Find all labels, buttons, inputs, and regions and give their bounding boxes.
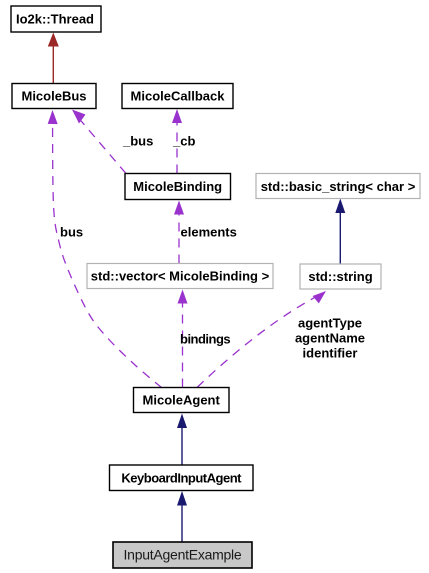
label _cb [172, 134, 195, 149]
edge MicoleBus->Io2k::Thread private inheritance (dark red) [48, 33, 59, 84]
svg-text:KeyboardInputAgent: KeyboardInputAgent [121, 471, 242, 486]
node std::basic_string< char > [256, 174, 420, 199]
svg-text:bus: bus [60, 225, 83, 240]
edge InputAgentExample->KeyboardInputAgent inheritance (midnightblue) [177, 491, 187, 542]
svg-text:Io2k::Thread: Io2k::Thread [16, 12, 94, 27]
node MicoleBinding [125, 174, 231, 200]
label _bus [122, 134, 153, 149]
svg-text:agentType: agentType [298, 316, 362, 331]
node MicoleBus [12, 84, 96, 109]
svg-text:elements: elements [181, 225, 237, 240]
label elements [181, 225, 237, 240]
edge std::vector->MicoleBinding usage elements (dashed darkorchid) [174, 201, 184, 264]
node std::vector< MicoleBinding > [87, 264, 273, 289]
svg-text:MicoleAgent: MicoleAgent [143, 393, 221, 408]
edge MicoleAgent->std::string usage agentType/agentName/identifier (dashed darkorchid) [197, 291, 326, 388]
svg-text:bindings: bindings [180, 332, 230, 347]
svg-text:identifier: identifier [303, 346, 358, 361]
svg-text:std::vector< MicoleBinding >: std::vector< MicoleBinding > [91, 269, 270, 284]
svg-text:MicoleBinding: MicoleBinding [133, 179, 222, 194]
svg-text:std::string: std::string [308, 269, 372, 284]
svg-text:MicoleBus: MicoleBus [21, 89, 86, 104]
node Io2k::Thread [11, 6, 101, 32]
svg-text:_cb: _cb [172, 134, 195, 149]
edge MicoleAgent->MicoleBus usage bus (curved dashed darkorchid) [48, 110, 162, 388]
svg-text:_bus: _bus [122, 134, 153, 149]
node MicoleCallback [122, 84, 233, 109]
label bindings [180, 332, 230, 347]
edge std::string->std::basic_string inheritance (midnightblue) [335, 199, 345, 265]
node MicoleAgent [134, 388, 230, 413]
label bus [60, 225, 83, 240]
edge MicoleAgent->std::vector usage bindings (dashed darkorchid) [178, 290, 188, 388]
node KeyboardInputAgent [110, 465, 254, 491]
edge MicoleBinding->MicoleBus usage _bus (dashed darkorchid) [72, 110, 126, 174]
edge MicoleBinding->MicoleCallback usage _cb (dashed darkorchid) [172, 109, 182, 174]
svg-text:std::basic_string< char >: std::basic_string< char > [261, 179, 416, 194]
node InputAgentExample (current, grey filled) [113, 542, 252, 568]
node std::string [300, 264, 381, 289]
svg-text:agentName: agentName [295, 331, 365, 346]
edge KeyboardInputAgent->MicoleAgent inheritance (midnightblue) [177, 414, 187, 466]
label agentType agentName identifier [295, 316, 365, 361]
svg-text:InputAgentExample: InputAgentExample [124, 547, 242, 563]
svg-text:MicoleCallback: MicoleCallback [131, 89, 226, 104]
